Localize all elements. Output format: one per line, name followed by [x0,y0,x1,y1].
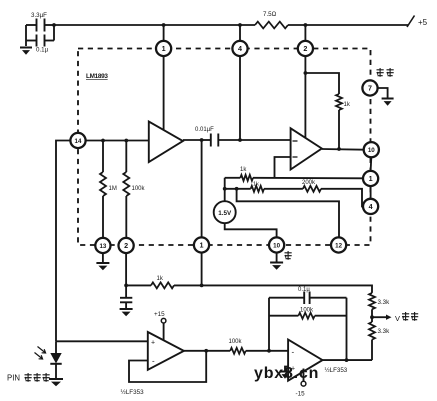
wire rail to pin 1 [162,23,166,41]
svg-text:3.3k: 3.3k [378,299,391,306]
pin 10 (bottom) [269,237,284,252]
resistor R 1M [100,141,117,238]
op-amp U1a [149,122,183,163]
wire U2a output [184,350,230,352]
svg-text:12: 12 [335,243,342,250]
PIN diode D1 [50,341,61,378]
pin 4 (right) [363,199,378,214]
svg-text:10: 10 [368,147,375,154]
wire pin2 branch to 1k [304,71,340,94]
svg-text:V: V [395,314,400,323]
wire ref row to pin 1 right [253,177,363,180]
resistor R 3.3k (upper) [369,293,390,317]
svg-text:1k: 1k [253,182,259,188]
svg-text:-: - [152,357,155,366]
pin 2 (top) [298,41,313,56]
wire U1b inverting input route [275,157,291,178]
svg-text:½LF353: ½LF353 [325,367,348,374]
ground (pin 10) [270,253,283,270]
wire pin14 left leg [56,141,70,342]
capacitor C1 3.3µF (supply bypass) [26,12,54,32]
wire U2b noninverting to ground [285,367,288,372]
op-amp U2a ½LF353 [148,332,184,370]
wire pin2 bottom leg [124,253,128,287]
resistor R2 1k [225,182,264,192]
wire pin1 bottom leg [201,253,203,285]
svg-text:+15: +15 [154,311,165,318]
svg-text:ybx8.cn: ybx8.cn [254,365,319,382]
svg-text:1: 1 [162,44,166,53]
wire feedback right leg [346,298,348,360]
resistor R 1k (feedback to output) [336,94,351,110]
light arrows [35,347,46,360]
pin 10 (right) [364,142,379,157]
svg-text:4: 4 [369,202,373,211]
pin 7 (right) [362,80,377,95]
svg-text:100k: 100k [300,308,314,314]
ground (PIN diode) [49,379,63,386]
svg-text:7.5Ω: 7.5Ω [263,11,277,18]
svg-text:-: - [292,348,295,357]
wire right edge pin links [370,157,373,199]
wire cap right leg [53,25,55,41]
pin 1 (top) [156,41,171,56]
svg-text:100k: 100k [229,339,243,345]
pin 1 (bottom) [194,237,209,252]
svg-text:+5: +5 [418,18,428,27]
capacitor C4 (bias decoupling) [120,285,132,308]
resistor R 100k [123,141,145,238]
wire U1b output to pin 10 [322,147,364,151]
IC U1 dashed outline [78,49,371,246]
node V output [370,312,418,323]
wire diode node to buffer input [56,340,148,342]
node +5 terminal [407,16,428,28]
pin 13 (bottom) [95,238,110,253]
pin 4 (top) [232,41,247,56]
wire cap left leg [25,25,27,46]
wire 1k to output node [338,110,340,149]
ground (case) [382,99,394,106]
wire node to pin 12 [235,187,339,237]
battery 1.5V reference [214,178,236,223]
op-amp U2b ½LF353 [288,340,322,381]
svg-text:10: 10 [273,243,280,250]
svg-text:3.3µF: 3.3µF [31,12,47,19]
label 地 [285,251,292,260]
supply +15 terminal [154,311,166,340]
svg-text:1k: 1k [157,276,164,282]
wire +V rail right segment [288,24,408,26]
resistor R 3.3k (lower) [369,317,390,360]
supply -15 terminal [296,369,306,398]
pin 14 (left) [70,133,85,148]
svg-text:200k: 200k [302,180,316,186]
ground (bias cap) [120,309,133,316]
pin 12 (bottom) [331,237,346,252]
svg-text:14: 14 [75,138,82,145]
wire bias row to divider [174,284,372,293]
ground (pin 13) [96,253,109,270]
svg-text:1.5V: 1.5V [218,210,232,217]
svg-text:PIN: PIN [7,374,20,383]
svg-text:0.1µ: 0.1µ [298,287,310,293]
capacitor C2 0.1µF (supply bypass) [26,35,54,54]
op-amp U1b [291,128,322,169]
wire pin 7 to case ground [378,88,388,98]
resistor R 200k [264,180,321,192]
wire battery to pin 10 ground [225,223,277,237]
wire pin14 to op-amp U1a input [86,139,149,143]
wire node to pin1 bottom [201,140,203,237]
ground (input filter) [20,48,32,55]
svg-text:0.1µ: 0.1µ [36,47,49,54]
resistor R 100k (feedback) [269,308,347,319]
wire U2a feedback [129,349,208,382]
pin 1 (right) [363,171,378,186]
svg-text:1k: 1k [240,167,247,173]
wire pin4 down to signal node [239,56,241,140]
svg-text:13: 13 [99,243,106,250]
svg-text:+: + [151,340,155,347]
svg-text:½LF353: ½LF353 [121,388,145,396]
svg-text:100k: 100k [132,186,146,192]
wire feedback left leg [268,298,270,351]
node supply rail left [52,23,56,27]
svg-text:2: 2 [124,241,128,250]
wire +V rail left segment [54,24,255,26]
wire U2b output [323,358,373,362]
svg-text:1k: 1k [344,102,351,108]
svg-text:-15: -15 [296,391,306,398]
resistor 7.5Ω [255,11,288,28]
svg-text:3.3k: 3.3k [378,328,391,335]
svg-text:7: 7 [368,84,372,93]
capacitor C5 0.1µ (feedback) [269,287,347,304]
svg-text:2: 2 [303,44,307,53]
wire 200k to pin 4 right [321,189,363,207]
wire rail to pin 2 [304,23,308,41]
ground (U2b + input) [280,372,291,379]
wire rail to pin 4 [238,23,242,41]
wire U1a output [183,138,204,142]
svg-text:1: 1 [200,241,204,250]
wire 100k to U2b input [246,349,288,353]
pin 2 (bottom) [119,238,134,253]
svg-text:1M: 1M [109,186,117,192]
capacitor C3 0.01µF (coupling) [195,127,291,147]
svg-text:LM1893: LM1893 [86,73,108,80]
label 外壳 [377,68,394,77]
svg-text:1: 1 [369,174,373,183]
resistor R 1k (bias) [126,276,174,288]
svg-text:0.01µF: 0.01µF [195,127,214,133]
wire pin2 to op-amp U1b power [304,56,306,138]
resistor R 1k (to reference) [225,167,253,181]
svg-text:4: 4 [238,44,242,53]
label PIN 二极管 [7,373,50,383]
wire pin1 to op-amp U1a power [163,56,165,130]
resistor R 100k (input) [229,339,246,354]
